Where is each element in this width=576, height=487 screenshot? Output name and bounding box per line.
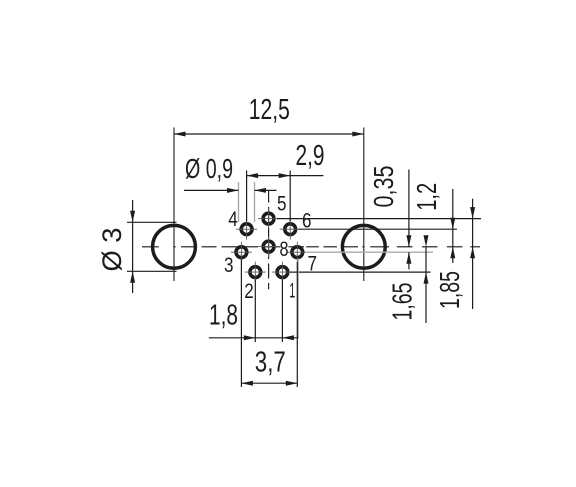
wire main horizontal centerline (142, 246, 480, 248)
svg-text:3,7: 3,7 (255, 346, 286, 378)
wire pin4/6 row extension (299, 228, 458, 230)
contact pin 2 (Ø0,9) (245, 262, 266, 283)
wire cluster vertical centerline (268, 191, 270, 290)
wire pin3/7 row extension (gray) (305, 251, 433, 253)
contact pin 1 (Ø0,9) (272, 262, 293, 283)
svg-text:12,5: 12,5 (249, 94, 290, 126)
dimension 1,2 line (450, 189, 455, 263)
svg-text:2,9: 2,9 (296, 140, 325, 172)
dimension 3,7 extension lines (241, 260, 297, 388)
mounting hole left (Ø3) (153, 225, 196, 268)
dimension Ø3 extension lines (127, 222, 177, 271)
svg-text:1,85: 1,85 (434, 271, 465, 309)
svg-text:4: 4 (228, 207, 238, 231)
svg-text:1,8: 1,8 (209, 300, 238, 332)
dimension 1,8 extension lines (255, 280, 282, 343)
contact pin 7 (Ø0,9) (287, 242, 308, 263)
dimension 0,35 line (406, 170, 411, 270)
dimension 1,65 line (424, 235, 429, 323)
svg-text:Ø 0,9: Ø 0,9 (185, 153, 233, 184)
dimension 2,9 line (247, 173, 324, 178)
wire pin7 lower extension (gray) (297, 259, 299, 339)
wire left circle vertical centerline (173, 128, 175, 282)
svg-text:2: 2 (244, 279, 254, 303)
dimension Ø0,9 line (184, 188, 277, 193)
svg-text:0,35: 0,35 (368, 166, 399, 208)
svg-text:1,2: 1,2 (411, 183, 442, 211)
dimension 1,8 line (209, 335, 299, 340)
contact pin 5 (Ø0,9) (258, 208, 279, 229)
wire pin2/1 row extension (290, 271, 431, 273)
svg-text:1: 1 (289, 279, 295, 303)
dimension Ø3 line (130, 200, 135, 293)
contact pin 6 (Ø0,9) (280, 219, 301, 240)
svg-text:Ø 3: Ø 3 (97, 228, 127, 272)
wire pin5 row extension (277, 218, 481, 220)
svg-text:8: 8 (280, 237, 289, 261)
contact pin 4 (Ø0,9) (236, 219, 257, 240)
dimension 12,5 line (174, 132, 364, 137)
svg-text:5: 5 (277, 191, 287, 215)
dimension 1,85 line (470, 199, 475, 309)
contact pin 3 (Ø0,9) (231, 242, 252, 263)
dimension Ø0,9 extension lines (gray tangents) (239, 182, 255, 222)
contact pin 8 (Ø0,9) (258, 236, 279, 257)
svg-text:1,65: 1,65 (387, 283, 418, 321)
dimension 2,9 extension lines (247, 171, 291, 222)
mounting hole right (Ø3) (342, 225, 385, 268)
svg-text:3: 3 (224, 253, 234, 277)
wire right circle vertical centerline (363, 128, 365, 282)
dimension 3,7 line (241, 381, 297, 386)
